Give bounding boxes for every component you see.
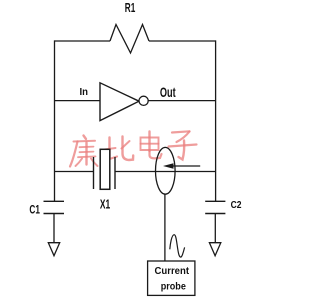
capacitor C1 bottom plate (44, 213, 65, 215)
wire: inverter output (148, 100, 215, 102)
svg-text:probe: probe (161, 281, 186, 293)
svg-text:Current: Current (155, 265, 190, 277)
inverter U1 output bubble (139, 96, 148, 105)
crystal X1 left plate (93, 157, 95, 189)
ground under C1 (48, 243, 59, 256)
wire: C2 to ground (214, 214, 216, 243)
子 (169, 131, 197, 159)
wire: top horizontal, left segment (55, 40, 111, 42)
wire: top horizontal, right segment (149, 40, 216, 42)
capacitor C1 top plate (44, 200, 65, 202)
crystal X1 right plate (114, 157, 116, 189)
crystal X1 body rectangle (100, 149, 110, 189)
current direction arrowhead (163, 163, 174, 168)
svg-text:R1: R1 (125, 1, 136, 15)
svg-text:X1: X1 (100, 197, 110, 212)
current probe ellipse (156, 147, 176, 194)
capacitor C2 top plate (205, 200, 225, 202)
svg-text:C1: C1 (29, 204, 40, 216)
康 (70, 136, 98, 167)
wire: crystal row, right segment (115, 171, 216, 173)
wire: C1 to ground (53, 214, 55, 243)
watermark text 康比电子 (70, 131, 197, 166)
电 (141, 132, 162, 159)
wire: ellipse to probe box (164, 194, 166, 261)
ground under C2 (209, 243, 220, 256)
capacitor C2 bottom plate (205, 213, 225, 215)
sine squiggle (170, 235, 185, 257)
current probe box (148, 261, 195, 295)
svg-text:Out: Out (160, 84, 176, 100)
wire: crystal row, left segment (55, 171, 94, 173)
svg-text:C2: C2 (231, 199, 242, 211)
wire: right vertical rail (215, 40, 217, 201)
wire: left vertical rail (54, 40, 56, 201)
inverter U1 triangle (100, 83, 139, 121)
wire: inverter input (55, 100, 101, 102)
current direction arrow line (173, 165, 201, 167)
svg-text:In: In (80, 87, 89, 98)
比 (105, 137, 134, 161)
resistor R1 zigzag (110, 25, 149, 54)
